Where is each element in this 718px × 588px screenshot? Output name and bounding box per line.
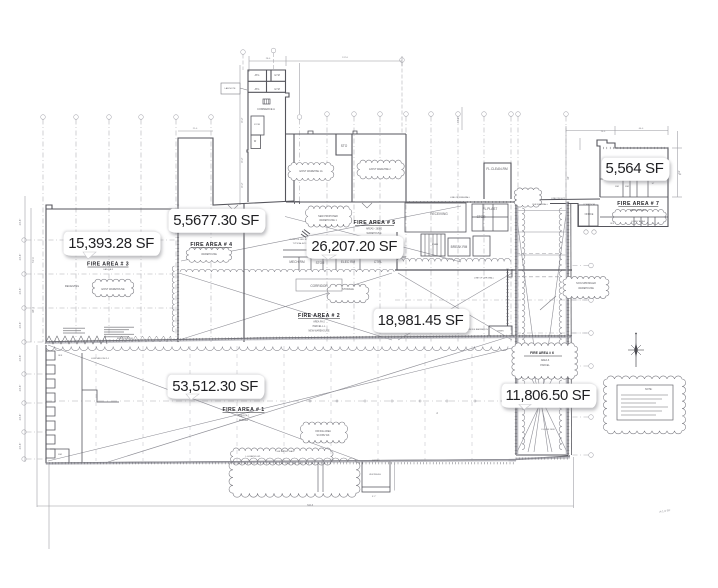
svg-text:OFF: OFF [58, 355, 63, 357]
svg-text:24'-8": 24'-8" [18, 219, 22, 226]
svg-text:38'-4: 38'-4 [31, 307, 35, 313]
svg-text:137-6: 137-6 [342, 57, 348, 59]
svg-text:LOBBY AREA: LOBBY AREA [631, 220, 645, 223]
svg-text:AREA5 - 26000: AREA5 - 26000 [366, 227, 383, 230]
svg-text:64-0: 64-0 [639, 128, 644, 130]
svg-text:FL.PLAST: FL.PLAST [483, 207, 498, 211]
svg-text:OFFICE AREA: OFFICE AREA [315, 430, 331, 433]
svg-text:LINE OF 2HR WALL: LINE OF 2HR WALL [474, 277, 495, 280]
svg-text:ELEC RM: ELEC RM [341, 260, 356, 264]
svg-text:STOR: STOR [254, 124, 260, 126]
svg-text:8'-2": 8'-2" [240, 157, 244, 162]
svg-text:VESTIBULE: VESTIBULE [369, 474, 382, 476]
svg-text:STOR: STOR [477, 215, 486, 219]
svg-text:BREAK RM: BREAK RM [451, 245, 468, 249]
svg-text:ST: ST [652, 183, 655, 185]
svg-text:EXIST WAREHSE 2: EXIST WAREHSE 2 [369, 168, 391, 171]
svg-text:STO: STO [341, 144, 348, 148]
svg-text:NON-SPRINKLER: NON-SPRINKLER [576, 282, 596, 285]
svg-text:FIRE AREA # 7: FIRE AREA # 7 [617, 201, 659, 207]
svg-text:EXIST OH DOOR: EXIST OH DOOR [117, 338, 133, 340]
svg-text:OFF: OFF [610, 223, 615, 225]
svg-text:STORAGE: STORAGE [342, 288, 354, 291]
svg-text:ATG: ATG [255, 74, 260, 77]
svg-text:MERCANTILE A: MERCANTILE A [630, 209, 647, 212]
svg-text:24-0: 24-0 [601, 131, 606, 133]
svg-text:L.H RATED WL: L.H RATED WL [245, 455, 261, 458]
svg-text:CORRIDOR: CORRIDOR [310, 284, 328, 288]
svg-text:LINE OF FIREWALL: LINE OF FIREWALL [450, 196, 471, 199]
svg-text:SCOPE WK: SCOPE WK [317, 434, 330, 437]
svg-text:COMMERCE A: COMMERCE A [257, 107, 275, 111]
svg-text:MECH RM: MECH RM [289, 260, 305, 264]
svg-text:342-6: 342-6 [307, 504, 314, 507]
svg-text:EXIST WAREHSE 1A: EXIST WAREHSE 1A [299, 170, 323, 173]
svg-text:2HR FIREWALL: 2HR FIREWALL [532, 203, 549, 206]
svg-text:RECEIVING: RECEIVING [430, 212, 448, 216]
svg-text:21-0: 21-0 [193, 128, 198, 130]
svg-text:ATG: ATG [255, 88, 260, 91]
svg-text:A-1.0 FP: A-1.0 FP [659, 508, 671, 514]
svg-text:SMOKE BARRIER LN: SMOKE BARRIER LN [468, 328, 488, 331]
svg-text:NOTE:: NOTE: [645, 388, 653, 391]
svg-text:NEW PROPOSED: NEW PROPOSED [318, 215, 338, 218]
svg-text:51'-0: 51'-0 [31, 257, 35, 263]
svg-text:STOR: STOR [316, 261, 325, 265]
svg-text:WAREHOUSE: WAREHOUSE [578, 287, 594, 290]
svg-text:CAD-FA-3: CAD-FA-3 [103, 268, 114, 271]
svg-text:8'-2": 8'-2" [240, 182, 244, 187]
svg-text:W: W [254, 140, 257, 143]
svg-text:24'-8": 24'-8" [18, 254, 22, 261]
svg-text:AREA FA-2: AREA FA-2 [313, 321, 325, 324]
svg-text:GYM: GYM [274, 88, 279, 91]
svg-text:FIRE AREA # 4: FIRE AREA # 4 [190, 242, 232, 248]
svg-text:AREA FA-1: AREA FA-1 [238, 415, 250, 418]
svg-text:44'-2": 44'-2" [456, 117, 460, 124]
svg-text:RM: RM [615, 186, 619, 188]
svg-text:LAB NOTE: LAB NOTE [225, 87, 236, 90]
svg-text:FLOOR DRN: FLOOR DRN [542, 429, 555, 431]
svg-text:AREA 6: AREA 6 [541, 359, 550, 362]
svg-text:FIRE AREA # 2: FIRE AREA # 2 [298, 313, 340, 319]
svg-text:36': 36' [566, 176, 570, 180]
svg-text:24'-8": 24'-8" [18, 288, 22, 295]
svg-text:EXIST WAREHOUSE: EXIST WAREHOUSE [101, 288, 125, 291]
svg-text:28-0: 28-0 [266, 58, 271, 60]
svg-text:OFFICE: OFFICE [585, 213, 594, 216]
svg-text:RM: RM [58, 454, 62, 456]
svg-text:RM: RM [625, 186, 629, 188]
svg-text:WAREHOUSE 1: WAREHOUSE 1 [319, 219, 337, 222]
svg-text:FIRE AREA # 6: FIRE AREA # 6 [530, 351, 554, 355]
svg-text:CTRL: CTRL [374, 260, 383, 264]
svg-text:GYM: GYM [274, 74, 279, 77]
svg-text:24'-8": 24'-8" [18, 355, 22, 362]
svg-text:NEW WAREHOUSE: NEW WAREHOUSE [309, 330, 330, 333]
svg-text:8'-2": 8'-2" [240, 117, 244, 122]
svg-text:ENTRY: ENTRY [372, 460, 380, 462]
svg-text:LINE FW EXT: LINE FW EXT [551, 198, 565, 200]
svg-text:RISER: RISER [497, 331, 504, 333]
svg-text:PARCEL L.L: PARCEL L.L [313, 325, 326, 328]
svg-text:PARCEL: PARCEL [540, 364, 550, 367]
svg-text:d: d [436, 412, 438, 415]
svg-text:24'-8": 24'-8" [18, 443, 22, 450]
svg-text:WAREHOUSE: WAREHOUSE [201, 253, 217, 256]
svg-text:FIRE AREA # 1: FIRE AREA # 1 [222, 407, 264, 413]
svg-text:24'-8": 24'-8" [18, 414, 22, 421]
svg-text:24'-8": 24'-8" [18, 385, 22, 392]
svg-text:LUNCHROOM 2-1: LUNCHROOM 2-1 [91, 358, 110, 360]
svg-text:CORRIDOR: CORRIDOR [583, 204, 595, 206]
svg-text:FL.CLEAN-RM: FL.CLEAN-RM [486, 167, 508, 171]
svg-text:24'-8": 24'-8" [18, 322, 22, 329]
svg-text:STAIR: STAIR [432, 243, 439, 246]
svg-text:52': 52' [677, 170, 681, 174]
svg-text:RECEIVING: RECEIVING [65, 284, 79, 288]
svg-text:8'-2": 8'-2" [372, 496, 377, 498]
svg-text:FIRE AREA # 3: FIRE AREA # 3 [87, 261, 129, 267]
svg-text:1 HR RATED WALL: 1 HR RATED WALL [275, 450, 295, 453]
svg-text:PARCEL: PARCEL [239, 419, 249, 422]
svg-text:FIRE AREA # 5: FIRE AREA # 5 [354, 220, 396, 226]
